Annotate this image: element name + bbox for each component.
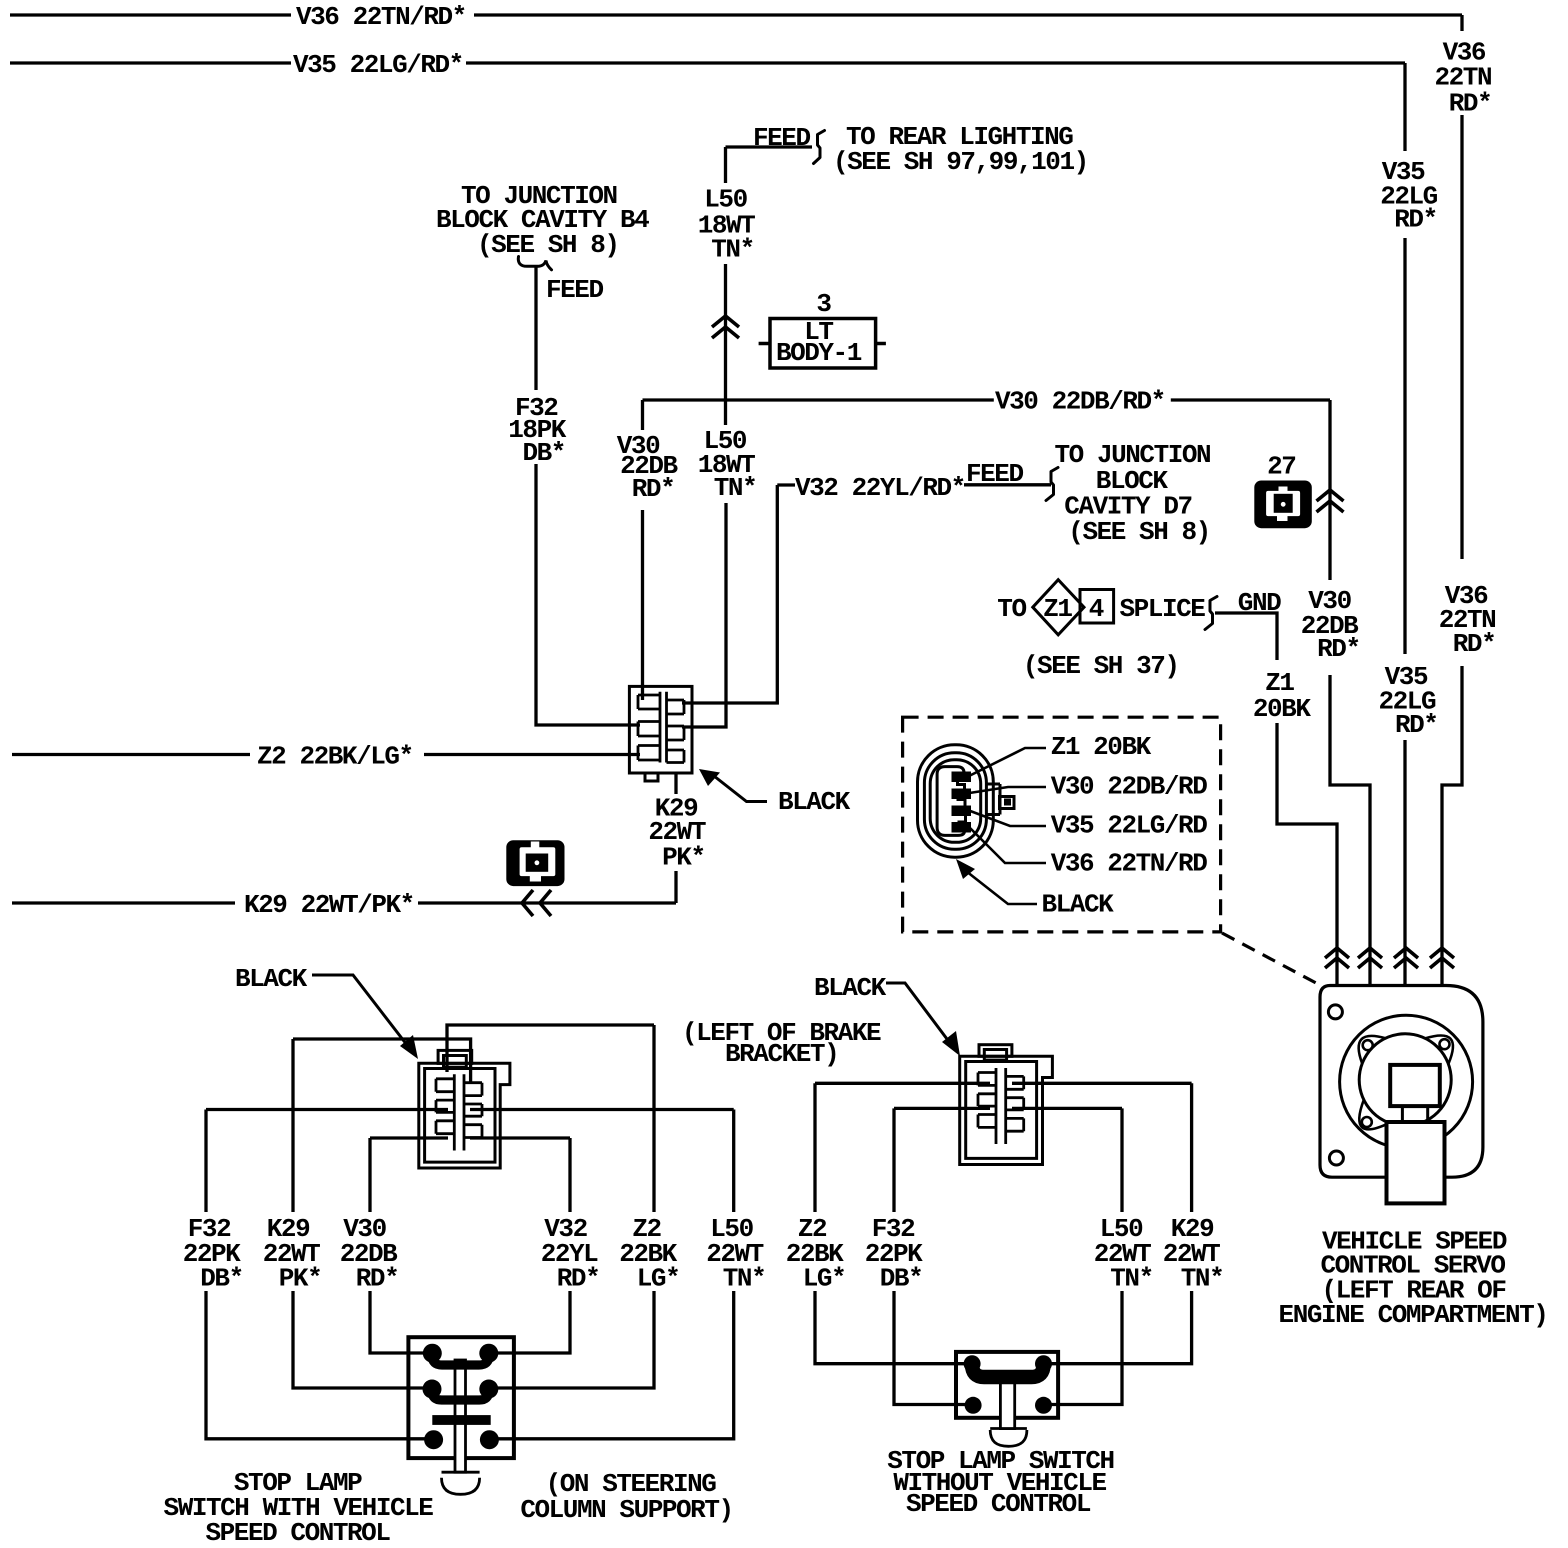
- wire V35 right vertical: [1403, 63, 1406, 986]
- svg-text:V35 22LG/RD*: V35 22LG/RD*: [293, 50, 463, 80]
- servo bolt hole top left: [1328, 1005, 1342, 1019]
- left switch middle bar: [432, 1415, 490, 1425]
- right stop lamp switch body: [956, 1352, 1058, 1418]
- svg-text:TO: TO: [997, 594, 1026, 624]
- svg-text:SPEED CONTROL: SPEED CONTROL: [906, 1489, 1091, 1519]
- svg-text:BLACK: BLACK: [235, 964, 308, 994]
- wire V30 22DB/RD horizontal: [643, 398, 1331, 401]
- svg-text:Z2 22BK/LG*: Z2 22BK/LG*: [257, 742, 413, 772]
- svg-text:V30 22DB/RD: V30 22DB/RD: [1051, 772, 1208, 802]
- brace at SPLICE GND: [1205, 597, 1217, 630]
- wire V36 22TN/RD top horizontal: [10, 13, 1462, 16]
- svg-text:Z1: Z1: [1043, 594, 1072, 624]
- right switch contact bar: [972, 1364, 1043, 1377]
- svg-text:DB*: DB*: [522, 438, 564, 468]
- servo bolt hole bottom left: [1329, 1151, 1343, 1165]
- servo flange lobes: [1359, 1035, 1453, 1129]
- wire column L50 right switch: [1044, 1108, 1123, 1404]
- inline connector C1 body: [629, 686, 692, 781]
- wire Z1 GND: [1215, 613, 1337, 986]
- servo center square: [1390, 1065, 1440, 1106]
- splice symbol Z1 diamond: [1033, 580, 1114, 635]
- svg-text:K29 22WT/PK*: K29 22WT/PK*: [244, 890, 414, 920]
- svg-text:(SEE SH 97,99,101): (SEE SH 97,99,101): [833, 147, 1088, 177]
- svg-text:TN*: TN*: [1110, 1264, 1152, 1294]
- servo flange screws: [1362, 1039, 1450, 1127]
- svg-text:BODY-1: BODY-1: [776, 338, 862, 368]
- brace at FEED junction block D7: [1046, 468, 1058, 501]
- left switch plunger shaft: [442, 1360, 480, 1494]
- harness chevrons above servo wire V30: [1358, 948, 1382, 968]
- wire L50 feed branch: [682, 147, 812, 727]
- wire right switch row1 K29 side: [1012, 1082, 1192, 1085]
- svg-text:RD*: RD*: [1317, 634, 1359, 664]
- svg-text:V36 22TN/RD: V36 22TN/RD: [1051, 849, 1208, 879]
- dashed leader to servo: [1222, 933, 1318, 984]
- svg-text:RD*: RD*: [1453, 629, 1495, 659]
- svg-text:SPEED CONTROL: SPEED CONTROL: [206, 1518, 391, 1548]
- squiggle under B4 note: [518, 257, 551, 270]
- svg-text:PK*: PK*: [279, 1264, 321, 1294]
- svg-text:Z1 20BK: Z1 20BK: [1051, 732, 1152, 762]
- leader pin V35: [965, 809, 1046, 826]
- wire V36 right vertical: [1442, 15, 1462, 986]
- svg-text:DB*: DB*: [880, 1264, 922, 1294]
- svg-text:(SEE SH 8): (SEE SH 8): [477, 230, 619, 260]
- servo connector oval (in dashed box): [918, 745, 1015, 857]
- svg-text:RD*: RD*: [1395, 710, 1437, 740]
- wire left switch row2 V32 side: [470, 1136, 570, 1139]
- svg-text:TN*: TN*: [1181, 1264, 1223, 1294]
- svg-text:V35 22LG/RD: V35 22LG/RD: [1051, 811, 1208, 841]
- vehicle speed control servo body: [1320, 986, 1483, 1178]
- wire V30 right vertical: [1330, 400, 1370, 986]
- left switch contacts row2: [432, 1389, 489, 1400]
- svg-text:BLACK: BLACK: [778, 787, 851, 817]
- svg-text:TN*: TN*: [723, 1264, 765, 1294]
- svg-text:RD*: RD*: [1449, 89, 1491, 119]
- svg-text:(SEE SH 8): (SEE SH 8): [1068, 517, 1210, 547]
- brace at FEED to rear lighting: [814, 131, 825, 164]
- svg-text:4: 4: [1089, 594, 1104, 624]
- wire column Z2 right switch: [815, 1083, 972, 1363]
- component 3 fuse box LT BODY-1: [759, 319, 886, 369]
- right switch contact dots: [964, 1355, 1052, 1414]
- servo neck: [1402, 1106, 1427, 1122]
- svg-text:COLUMN SUPPORT): COLUMN SUPPORT): [520, 1495, 732, 1525]
- harness chevrons on K29 wire (left pointing): [522, 890, 551, 916]
- wire column V32 left switch: [489, 1138, 570, 1353]
- component 27 connector symbol: [1254, 481, 1312, 529]
- svg-text:FEED: FEED: [966, 459, 1023, 489]
- right switch connector housing: [960, 1045, 1053, 1165]
- servo outer circle: [1340, 1015, 1473, 1148]
- wire right switch row1 Z2 side: [815, 1082, 990, 1085]
- svg-text:LG*: LG*: [803, 1264, 845, 1294]
- svg-text:SPLICE: SPLICE: [1120, 594, 1206, 624]
- wire V35 22LG/RD top horizontal: [10, 61, 1405, 64]
- wire column F32 left switch: [206, 1110, 432, 1439]
- wire F32 branch: [536, 266, 640, 725]
- left switch contact dots: [423, 1344, 499, 1450]
- leader BLACK at connector C1 with arrow: [699, 769, 767, 802]
- wire K29 to left switch connector tab: [293, 1039, 471, 1082]
- leader pin V30: [963, 787, 1046, 794]
- svg-text:RD*: RD*: [632, 474, 674, 504]
- wire Z2 to left switch connector tab: [447, 1025, 654, 1072]
- svg-text:V36 22TN/RD*: V36 22TN/RD*: [296, 2, 466, 32]
- wire V30 left vertical: [641, 400, 644, 700]
- svg-text:V30 22DB/RD*: V30 22DB/RD*: [995, 387, 1165, 417]
- leader BLACK at left switch with arrow: [312, 975, 418, 1059]
- servo lower block: [1387, 1122, 1445, 1203]
- svg-text:(SEE SH 37): (SEE SH 37): [1023, 651, 1179, 681]
- left stop lamp switch body: [408, 1337, 514, 1458]
- right switch connector comb: [978, 1068, 1024, 1144]
- svg-text:27: 27: [1267, 452, 1295, 482]
- right switch plunger shaft: [990, 1377, 1027, 1446]
- wire column K29 left switch: [293, 1039, 432, 1388]
- wire right switch row2 L50 side: [1012, 1107, 1122, 1110]
- harness chevrons above servo wire Z1: [1325, 948, 1349, 968]
- left switch contacts row1: [432, 1353, 489, 1365]
- svg-text:20BK: 20BK: [1253, 694, 1311, 724]
- wire column Z2 left switch: [489, 1025, 654, 1388]
- servo inner circle: [1359, 1034, 1451, 1126]
- svg-text:RD*: RD*: [557, 1264, 599, 1294]
- wire column K29 right switch: [1044, 1083, 1192, 1363]
- wire left switch row1 F32 side: [206, 1108, 448, 1111]
- wire column F32 right switch: [894, 1108, 973, 1404]
- svg-text:TN*: TN*: [714, 473, 756, 503]
- leader pin Z1: [963, 748, 1046, 779]
- leader BLACK in box with arrow: [956, 859, 1037, 904]
- wire Z2 22BK/LG horizontal: [12, 753, 640, 756]
- svg-text:LG*: LG*: [637, 1264, 679, 1294]
- svg-text:BRACKET): BRACKET): [725, 1039, 838, 1069]
- dashed detail box: [903, 717, 1221, 932]
- svg-text:TN*: TN*: [711, 235, 753, 265]
- svg-text:RD*: RD*: [356, 1264, 398, 1294]
- inline connector C1 comb: [638, 692, 684, 763]
- wire V32 22YL/RD: [682, 485, 1051, 703]
- wire column L50 left switch: [489, 1110, 734, 1439]
- svg-text:PK*: PK*: [662, 843, 704, 873]
- wire right switch row2 F32 side: [894, 1107, 990, 1110]
- svg-text:DB*: DB*: [200, 1264, 242, 1294]
- svg-text:FEED: FEED: [753, 123, 810, 153]
- svg-text:ENGINE COMPARTMENT): ENGINE COMPARTMENT): [1279, 1300, 1548, 1330]
- svg-text:V32 22YL/RD*: V32 22YL/RD*: [795, 473, 965, 503]
- wire K29 22WT/PK horizontal: [12, 773, 676, 903]
- servo connector pins: [952, 772, 972, 833]
- left switch connector housing: [419, 1050, 510, 1168]
- wire left switch row2 V30 side: [370, 1136, 448, 1139]
- svg-text:FEED: FEED: [546, 275, 603, 305]
- wire column V30 left switch: [370, 1138, 432, 1353]
- svg-text:BLACK: BLACK: [1042, 890, 1115, 920]
- leader pin V36: [966, 824, 1046, 863]
- harness chevrons on V30 right wire: [1317, 490, 1344, 512]
- component 4 connector symbol: [506, 840, 564, 886]
- left switch connector comb: [436, 1074, 482, 1150]
- svg-text:GND: GND: [1238, 588, 1281, 618]
- svg-text:BLACK: BLACK: [814, 973, 887, 1003]
- leader BLACK at right switch with arrow: [886, 983, 960, 1056]
- harness chevrons above servo wire V36: [1430, 948, 1454, 968]
- wire left switch row1 L50 side: [470, 1108, 734, 1111]
- svg-text:RD*: RD*: [1394, 205, 1436, 235]
- harness chevrons on L50 wire: [712, 316, 739, 338]
- harness chevrons above servo wire V35: [1394, 948, 1418, 968]
- svg-text:3: 3: [816, 289, 831, 319]
